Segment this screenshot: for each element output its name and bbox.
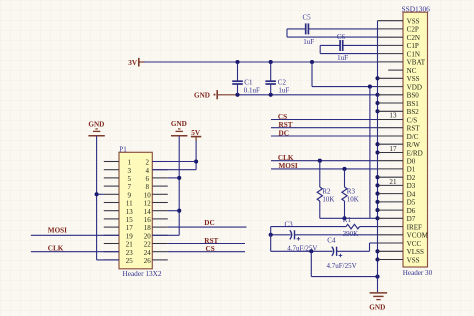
svg-text:C/S: C/S [407,116,418,124]
junction GND-pin14 [177,209,181,213]
net label CS (left) [206,245,215,253]
svg-text:E/RD: E/RD [407,149,423,157]
svg-text:C2P: C2P [407,26,419,34]
svg-text:15: 15 [126,216,134,224]
wire C5 left to C2N row [287,29,378,37]
pin number 13 [389,112,397,120]
svg-text:D2: D2 [407,174,416,182]
junction BS0-VSS vertical [375,93,379,97]
svg-text:R2: R2 [322,187,331,195]
designator SSD1306 [402,5,431,14]
junction VBAT-C2 [269,60,273,64]
power port GND (bar style) [194,90,238,100]
svg-text:10K: 10K [347,195,359,203]
svg-text:C3: C3 [285,220,294,228]
svg-text:D5: D5 [407,199,416,207]
svg-text:VLSS: VLSS [407,248,424,256]
label Header 13X2 [122,269,161,278]
svg-text:21: 21 [389,178,397,186]
wire MOSI to D1 pin [271,168,378,170]
ground GND (above P1 left) [88,121,104,136]
svg-text:VBAT: VBAT [407,59,426,67]
svg-text:25: 25 [126,257,134,265]
junction V1-D3 [375,183,379,187]
svg-text:BS2: BS2 [407,108,420,116]
svg-text:23: 23 [126,249,134,257]
svg-text:D3: D3 [407,182,416,190]
svg-text:SSD1306: SSD1306 [402,5,431,14]
svg-text:6: 6 [145,175,149,183]
junction VCOM-C3 left [269,233,273,237]
svg-text:Header 30: Header 30 [403,269,433,277]
svg-text:D6: D6 [407,207,416,215]
svg-text:1uF: 1uF [278,87,289,95]
svg-text:MOSI: MOSI [48,227,67,235]
svg-text:24: 24 [144,249,152,257]
wire VDD branch [312,62,378,87]
P1 pin numbers [126,159,151,265]
svg-text:C2: C2 [278,78,287,86]
connector P1 Header 13X2 body [119,152,152,268]
svg-text:GND: GND [194,92,210,100]
wire CS from pin24 [168,251,245,253]
svg-text:19: 19 [126,232,134,240]
svg-text:20: 20 [144,232,152,240]
wire pin14 to GND vertical [168,210,179,212]
junction R3-D7 rail [342,216,346,220]
wire pin9 to GND vertical [97,193,104,195]
junction V1-BS1 [375,101,379,105]
wire 5V vertical [152,141,196,170]
junction CLK-R2 [318,159,322,163]
capacitor C2 1uF (top) [265,62,289,95]
wire GND-left vertical [97,136,119,260]
wire RST from pin22 [168,243,245,245]
svg-text:DC: DC [204,219,214,227]
svg-text:R/W: R/W [407,141,421,149]
pin number 17 [389,145,397,153]
capacitor C4 4.7uF/25V [327,236,378,269]
svg-text:17: 17 [389,145,397,153]
svg-text:22: 22 [144,241,152,249]
svg-text:1: 1 [128,159,132,167]
svg-text:C4: C4 [327,236,336,244]
svg-text:GND: GND [369,303,385,311]
junction 5V-pin2 [194,159,198,163]
svg-text:4.7uF/25V: 4.7uF/25V [327,262,357,270]
capacitor C5 1uF [303,14,315,47]
junction V1-BS2 [375,109,379,113]
svg-text:C6: C6 [337,33,346,41]
junction V1-VLSS [375,249,379,253]
junction V1-R/W [375,142,379,146]
svg-text:13: 13 [389,112,397,120]
wire C3 left vertical [270,227,272,252]
wire ground drop from bottom rail [311,251,377,276]
wire C5 right / C2P row [308,28,377,30]
junction ground rail-V1 [375,275,379,279]
junction bottom rail drop [309,249,313,253]
svg-text:14: 14 [144,208,152,216]
capacitor C3 4.7uF/25V [271,220,378,252]
svg-text:11: 11 [126,200,133,208]
junction V1-E/RD [375,150,379,154]
svg-text:0.1uF: 0.1uF [244,87,260,95]
junction V1-D2 [375,175,379,179]
resistor R3 10K [342,169,359,218]
svg-text:3V: 3V [128,59,138,67]
svg-text:3: 3 [128,167,132,175]
svg-text:7: 7 [128,183,132,191]
svg-text:8: 8 [145,183,149,191]
net label RST (right) [279,121,293,129]
svg-text:VCC: VCC [407,240,422,248]
net label CS (right) [278,113,287,121]
ground GND (above P1 right) [171,120,188,136]
svg-text:R3: R3 [347,187,356,195]
junction VBAT-C1 [235,60,239,64]
wire pin2 to 5V [152,161,196,163]
resistor R1 390K [271,216,378,238]
svg-text:5: 5 [128,175,132,183]
net label DC (right) [279,129,289,137]
svg-text:NC: NC [407,67,417,75]
resistor R2 10K [317,161,334,219]
wire C3/C4 bottom rail [271,250,333,252]
SSD1306 pin stubs [378,21,404,260]
junction GND-C1 [235,93,239,97]
svg-text:IREF: IREF [407,223,422,231]
junction MOSI-R3 [342,167,346,171]
net label CLK (left) [48,245,64,253]
designator P1 [119,145,127,153]
junction VBAT-VDD branch [310,60,314,64]
svg-text:13: 13 [126,208,134,216]
wire GND-right vertical [152,136,179,236]
SSD1306 pin names [407,18,429,265]
svg-text:BS0: BS0 [407,92,420,100]
connector U? SSD1306 Header 30 body [403,12,428,267]
net label RST (left) [204,237,218,245]
P1 right pin stubs [152,162,168,260]
junction V1-D4 [375,192,379,196]
P1 left pin stubs [104,162,119,260]
power port 3V [128,58,144,67]
junction V1-D6 [375,208,379,212]
svg-text:D/C: D/C [407,133,419,141]
wire DC from pin18 [168,226,247,228]
net label MOSI (right) [279,162,298,170]
svg-text:10K: 10K [322,195,334,203]
svg-text:10: 10 [144,191,152,199]
wire D7 rail (resistor commons) [320,217,378,219]
svg-text:D4: D4 [407,190,416,198]
junction VDD-V2 [368,85,372,89]
net label CLK (right) [278,154,294,162]
svg-text:C1P: C1P [407,42,419,50]
power port 5V [191,129,201,141]
wire RST to RST pin [271,127,378,129]
junction V1-VSS30 [375,257,379,261]
svg-text:C1N: C1N [407,50,420,58]
svg-text:9: 9 [128,191,132,199]
svg-text:VSS: VSS [407,18,420,26]
svg-text:C2N: C2N [407,34,420,42]
svg-text:21: 21 [126,241,134,249]
capacitor C1 0.1uF [232,62,260,95]
svg-text:17: 17 [126,224,134,232]
net label DC (left) [204,219,214,227]
svg-text:26: 26 [144,257,152,265]
svg-text:VDD: VDD [407,83,422,91]
svg-text:12: 12 [144,200,152,208]
wire C6 left to C1N row [320,45,377,53]
capacitor C6 1uF [337,33,348,62]
svg-text:C5: C5 [303,14,312,22]
svg-text:D7: D7 [407,215,416,223]
junction V1-VSS8 [375,76,379,80]
svg-text:1uF: 1uF [337,54,348,62]
svg-text:RST: RST [407,125,421,133]
svg-text:18: 18 [144,224,152,232]
wire CS to C/S pin [271,119,378,121]
wire pin6 to GND vertical [168,177,179,179]
svg-text:R1: R1 [343,216,352,224]
svg-text:D1: D1 [407,166,416,174]
svg-text:VCOM: VCOM [407,232,429,240]
wire 3V / VBAT rail [144,61,378,63]
wire MOSI to pin19 [31,234,119,236]
svg-text:4: 4 [145,167,149,175]
net label MOSI (left) [48,227,67,235]
svg-text:1uF: 1uF [303,38,314,46]
svg-text:D0: D0 [407,158,416,166]
svg-text:Header 13X2: Header 13X2 [122,269,161,278]
svg-text:P1: P1 [119,145,127,153]
wire CLK to pin23 [31,251,119,253]
pin number 21 [389,178,397,186]
svg-text:BS1: BS1 [407,100,420,108]
junction V1-D5 [375,200,379,204]
svg-text:2: 2 [145,159,149,167]
junction V1-D7 [375,216,379,220]
svg-text:390K: 390K [343,230,359,238]
svg-text:VSS: VSS [407,75,420,83]
wire V2 vertical (VDD to D7 rail) [369,87,371,219]
svg-text:VSS: VSS [407,256,420,264]
wire CLK to D0 pin [271,160,378,162]
label Header 30 [403,269,433,277]
svg-text:GND: GND [171,120,187,128]
junction GND-pin6 [177,176,181,180]
wire DC to D/C pin [271,135,378,137]
ground GND (bottom right) [369,293,387,311]
wire V1 vertical VSS net [377,21,379,293]
svg-text:GND: GND [88,121,104,129]
svg-text:16: 16 [144,216,152,224]
wire C6 right / C1P row [343,44,378,46]
svg-text:C1: C1 [244,78,253,86]
junction GND-C2 [269,93,273,97]
junction GND-pin9 [95,192,99,196]
wire GND rail / BS0 net [236,94,378,96]
